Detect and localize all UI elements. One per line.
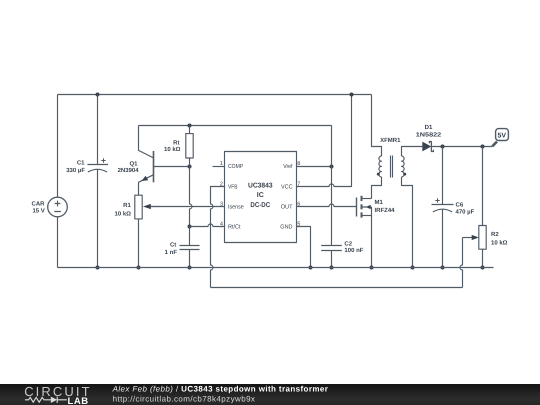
capacitor Ct 1nF [180,227,200,268]
svg-text:LAB: LAB [68,396,89,405]
svg-text:4: 4 [220,222,223,228]
wire M1 drain to transformer primary bottom [372,177,382,199]
voltage source CAR 15V [48,197,68,217]
svg-text:Vref: Vref [283,163,293,170]
svg-text:VFB: VFB [228,183,238,190]
wire VFB jog from pin2 down to feedback rail (hops Isense and ground rail) [211,187,225,288]
svg-text:2N3904: 2N3904 [118,167,140,174]
transistor M1 IRFZ44 MOSFET [357,196,372,218]
svg-text:1: 1 [220,161,223,167]
wire Q1 collector to Rt-top rail [139,125,332,127]
wire M1 source to ground rail [371,216,373,268]
label 5V [498,133,507,140]
svg-text:15 V: 15 V [32,208,44,215]
resistor R2 10k potentiometer [463,147,487,268]
svg-text:100 nF: 100 nF [344,247,363,254]
wire Vref/C2 vertical [331,126,333,246]
node VCC top rail junction [350,93,354,97]
svg-text:1N5822: 1N5822 [416,132,442,139]
label Q1 [118,160,140,174]
node R2 bottom junction [481,266,485,270]
svg-text:10 kΩ: 10 kΩ [491,240,508,247]
wire COMP stub pin1 [213,166,225,168]
svg-text:Ct: Ct [170,241,176,248]
wire pin4 RtCt wire (hops VFB jog) [190,224,225,227]
node Ct bottom junction [188,266,192,270]
wire transformer primary top from rail [372,95,382,157]
resistor R1 10k potentiometer [135,195,160,267]
wire Rt bottom vertical down to Ct (hops Isense wire) [190,167,193,227]
transistor Q1 2N3904 [139,126,190,196]
label Rt [164,139,181,153]
resistor Rt 10k [186,126,193,167]
node C6 top junction [441,145,445,149]
svg-text:3: 3 [220,201,223,207]
label R1 [115,202,132,218]
label D1 [416,124,442,138]
svg-text:Q1: Q1 [129,160,138,167]
node Vref junction [330,165,334,169]
wire transformer secondary bottom to ground rail [402,177,413,268]
label IC pin numbers [220,161,301,227]
footer bar [0,384,540,405]
label CAR [32,201,46,215]
svg-text:C6: C6 [456,201,464,208]
wire feedback rail [211,287,463,289]
wire CAR top lead [57,95,59,198]
svg-text:7: 7 [297,181,300,187]
capacitor C6 470uF [432,147,454,268]
svg-text:M1: M1 [375,199,384,206]
node C1 bottom junction [96,266,100,270]
svg-text:IC: IC [257,192,264,199]
svg-text:IRFZ44: IRFZ44 [375,207,396,214]
svg-text:C2: C2 [344,240,352,247]
node Ct top junction [188,225,192,229]
wire Vref stub pin8 [297,166,332,168]
svg-text:5: 5 [297,222,300,228]
svg-text:UC3843: UC3843 [248,182,273,189]
svg-text:5V: 5V [498,133,507,140]
wire R2 wiper jog down to feedback rail (hops ground rail) [460,238,463,288]
svg-text:GND: GND [280,224,292,231]
capacitor C1 330uF [88,158,109,172]
label IC center text [248,182,273,209]
wire transformer secondary top to diode [402,147,423,157]
wire C1 bottom lead [97,170,99,268]
op-amp U1 IC UC3843 box [225,152,297,243]
diode D1 1N5822 schottky [422,142,433,152]
label C6 [456,201,475,215]
svg-text:CAR: CAR [32,201,46,208]
wire VCC wire pin7 (hops C2 vertical) [297,95,352,187]
svg-text:1 nF: 1 nF [165,249,178,256]
label C2 [344,240,363,254]
wire CAR bottom lead [57,217,59,268]
node CAR top junction with C1 branch [96,93,100,97]
wire ground rail [58,267,494,269]
wire top rail [58,94,372,96]
svg-text:R2: R2 [491,231,499,238]
svg-text:http://circuitlab.com/cb78k4pz: http://circuitlab.com/cb78k4pzywb9x [113,395,256,404]
svg-text:Alex Feb (febb) / UC3843 stepd: Alex Feb (febb) / UC3843 stepdown with t… [112,384,329,393]
label XFMR1 [380,137,401,144]
label C1 [66,160,85,174]
svg-text:C1: C1 [77,160,85,167]
label IC pin names [228,163,293,230]
svg-text:XFMR1: XFMR1 [380,137,401,144]
node Q1 base junction [188,165,192,169]
svg-text:R1: R1 [123,202,131,209]
svg-text:DC-DC: DC-DC [250,202,270,209]
svg-text:330 µF: 330 µF [66,167,85,174]
label R2 [491,231,508,246]
node R2 top junction [481,145,485,149]
svg-text:Isense: Isense [228,203,244,210]
wire GND wire pin5 [297,227,311,268]
svg-text:Rt: Rt [173,139,179,146]
node Rt top junction [188,124,192,128]
label M1 [375,199,396,214]
svg-text:VCC: VCC [281,183,293,190]
node M1 source junction [370,266,374,270]
svg-text:10 kΩ: 10 kΩ [115,211,132,218]
svg-text:8: 8 [297,161,300,167]
capacitor C2 100nF [321,246,342,268]
wire C1 top lead [97,95,99,165]
footer title text [112,384,329,403]
svg-text:OUT: OUT [281,203,293,210]
svg-text:6: 6 [297,201,300,207]
svg-text:Rt/Ct: Rt/Ct [228,224,241,231]
wire OUT wire pin6 to gate (hops C2 vertical) [297,204,357,207]
node R1 bottom junction [137,266,141,270]
svg-text:10 kΩ: 10 kΩ [164,146,181,153]
transformer XFMR1 [377,156,406,178]
wire Isense wire from R1 wiper to pin3 [150,206,224,208]
node C2 bottom junction [330,266,334,270]
node secondary bottom junction [411,266,415,270]
svg-text:COMP: COMP [228,163,243,170]
node C6 bottom junction [441,266,445,270]
node 5V flag [492,129,508,147]
svg-text:D1: D1 [425,124,433,131]
footer CircuitLab logo [24,384,91,405]
svg-text:470 µF: 470 µF [456,208,475,215]
wire output wire from diode cathode to 5V flag [431,146,492,148]
node GND junction [309,266,313,270]
label Ct [165,241,178,256]
svg-text:2: 2 [220,181,223,187]
